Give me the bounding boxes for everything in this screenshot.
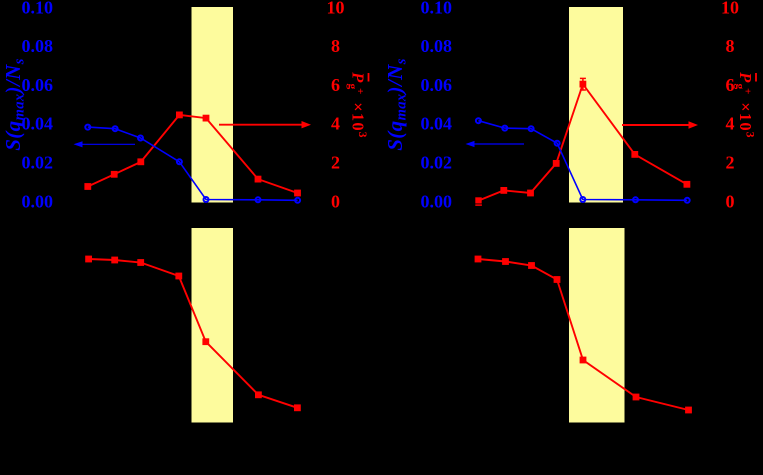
red curve top-left panel — [84, 112, 301, 197]
y tick labels right axis top-left panel (red) — [327, 0, 345, 211]
red curve bottom-right panel — [475, 256, 692, 414]
svg-text:8: 8 — [726, 36, 735, 56]
red error bar on first point top-right panel — [475, 198, 482, 205]
y tick labels left axis top-right panel (blue) — [421, 0, 453, 211]
svg-text:4: 4 — [726, 114, 735, 134]
svg-text:0: 0 — [726, 191, 735, 211]
svg-text:0.06: 0.06 — [421, 75, 453, 95]
svg-text:4: 4 — [331, 114, 340, 134]
svg-text:Pg+ ×103: Pg+ ×103 — [346, 71, 368, 138]
blue curve top-right panel — [476, 118, 690, 203]
svg-text:10: 10 — [721, 0, 739, 17]
y axis title S(q_max)/N_s top-left panel (blue, rotated) — [1, 58, 28, 151]
svg-text:6: 6 — [331, 75, 340, 95]
svg-text:0.00: 0.00 — [22, 191, 54, 211]
svg-text:2: 2 — [726, 153, 735, 173]
svg-text:0.00: 0.00 — [421, 191, 453, 211]
yellow band top-right panel — [569, 7, 623, 203]
svg-text:0: 0 — [331, 191, 340, 211]
blue annotation arrow top-right panel — [466, 141, 525, 147]
red curve top-right panel — [475, 81, 690, 204]
red annotation arrow top-left panel — [219, 121, 311, 128]
red annotation arrow top-right panel — [622, 121, 698, 128]
svg-text:0.02: 0.02 — [421, 153, 453, 173]
y axis title Pbar_g+ x10^3 top-right panel (red, rotated) — [734, 71, 757, 138]
svg-text:0.06: 0.06 — [22, 75, 54, 95]
svg-text:0.08: 0.08 — [22, 36, 54, 56]
svg-text:0.10: 0.10 — [421, 0, 453, 17]
y tick labels right axis top-right panel (red) — [721, 0, 739, 211]
yellow band bottom-left panel — [192, 228, 234, 423]
svg-text:0.10: 0.10 — [22, 0, 54, 17]
y tick labels left axis top-left panel (blue) — [22, 0, 54, 211]
svg-text:10: 10 — [327, 0, 345, 17]
svg-text:Pg+ ×103: Pg+ ×103 — [734, 71, 756, 138]
red curve bottom-left panel — [85, 256, 301, 412]
svg-text:6: 6 — [726, 75, 735, 95]
blue annotation arrow top-left panel — [74, 141, 136, 147]
svg-text:0.08: 0.08 — [421, 36, 453, 56]
yellow band bottom-right panel — [569, 228, 625, 423]
y axis title S(q_max)/N_s top-right panel (blue, rotated) — [383, 58, 410, 151]
svg-text:2: 2 — [331, 153, 340, 173]
red error bar on peak point top-right panel — [580, 78, 586, 90]
svg-text:0.02: 0.02 — [22, 153, 54, 173]
y axis title Pbar_g+ x10^3 top-left panel (red, rotated) — [346, 71, 369, 138]
svg-text:8: 8 — [331, 36, 340, 56]
blue curve top-left panel — [85, 125, 300, 203]
svg-text:0.04: 0.04 — [421, 114, 453, 134]
yellow band top-left panel — [192, 7, 234, 203]
